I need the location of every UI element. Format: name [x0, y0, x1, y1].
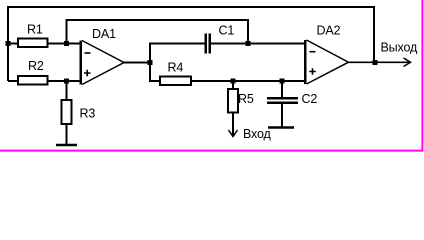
resistor R2: [18, 76, 48, 85]
node: junction R4 row / R5 top: [231, 79, 236, 84]
svg-text:DA2: DA2: [317, 24, 341, 38]
wire: from R2 node down to R3: [66, 81, 68, 100]
wire: DA1 output to node: [124, 62, 150, 64]
selection border (magenta) bottom edge: [0, 150, 423, 152]
svg-text:R5: R5: [238, 92, 254, 106]
label Вход (input): [243, 127, 272, 141]
svg-text:Вход: Вход: [243, 127, 272, 141]
wire: drop from top rail down to DA2 output node: [373, 6, 375, 63]
wire: C2 bottom lead to ground: [281, 104, 283, 127]
label R3: [80, 107, 96, 121]
svg-text:DA1: DA1: [92, 27, 116, 41]
wire: inner feedback riser from R1 node up: [66, 20, 68, 44]
wire: C1 row left segment: [149, 43, 205, 45]
svg-text:C2: C2: [302, 92, 318, 106]
op-amp U1 DA1: [80, 41, 125, 85]
svg-text:R4: R4: [168, 61, 184, 75]
ground: bar under R3: [56, 144, 77, 147]
resistor R4: [160, 77, 191, 86]
wire: DA2 output with output terminal arrow: [349, 58, 411, 67]
wire: R1 row from left rail to DA1 inverting input: [8, 43, 80, 45]
label C1: [219, 24, 235, 38]
node: DA1 output junction: [148, 60, 153, 65]
selection border (magenta) right edge: [421, 0, 423, 152]
capacitor C2: [267, 97, 298, 104]
resistor R1: [18, 39, 48, 48]
wire: from R4 row node down to R5: [232, 81, 234, 89]
wire: R5 bottom lead with input terminal arrow: [229, 113, 238, 137]
op-amp U2 DA2: [304, 40, 349, 84]
wire: inner feedback horizontal rail: [66, 19, 249, 21]
node: junction R4 row / C2 top: [280, 79, 285, 84]
capacitor C1: [205, 34, 212, 54]
svg-text:R1: R1: [27, 23, 43, 37]
label DA1: [92, 27, 116, 41]
resistor R3: [62, 100, 72, 124]
label DA2: [317, 24, 341, 38]
wire: top feedback rail from top-left corner to above DA2 output: [7, 6, 374, 8]
wire: C1 row right segment to DA2 inverting input: [211, 43, 305, 45]
wire: R4 row from DA1 output riser to DA2 non-inverting input: [149, 80, 305, 82]
wire: riser from DA1 output node up to C1 row and down to R4 row: [149, 43, 151, 82]
label R5: [238, 92, 254, 106]
node: DA2 output junction with top rail drop: [373, 60, 378, 65]
node: junction at R1 right / feedback drop: [64, 41, 69, 46]
label R2: [28, 59, 44, 73]
svg-text:R3: R3: [80, 107, 96, 121]
label Выход (output): [381, 41, 419, 55]
wire: left rail from top-left corner down to R2 row: [7, 6, 9, 81]
wire: R2 row from left rail to DA1 non-inverting input: [8, 80, 80, 82]
svg-text:C1: C1: [219, 24, 235, 38]
label R1: [27, 23, 43, 37]
resistor R5: [228, 89, 238, 113]
label R4: [168, 61, 184, 75]
node: junction on left rail at R1 row: [6, 41, 11, 46]
wire: inner feedback drop to DA2 inverting node: [247, 19, 249, 44]
svg-text:R2: R2: [28, 59, 44, 73]
node: junction feedback/C1/DA2 inverting: [246, 41, 251, 46]
label C2: [302, 92, 318, 106]
ground: bar under C2: [268, 126, 294, 129]
node: junction at R2 right / R3 top: [64, 79, 69, 84]
svg-text:Выход: Выход: [381, 41, 419, 55]
wire: from R4 row node down to C2: [281, 81, 283, 97]
wire: R3 bottom lead to ground: [66, 124, 68, 144]
